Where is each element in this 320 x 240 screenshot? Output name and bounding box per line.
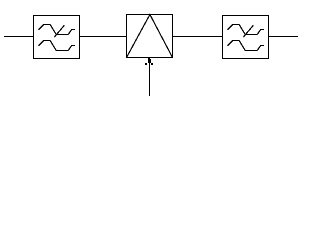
filter F2 lower sine bbox=[228, 41, 264, 51]
wire input lead bbox=[4, 36, 34, 38]
filter F1 box bbox=[34, 16, 80, 59]
filter F2 box bbox=[223, 16, 269, 59]
arrow control head body bbox=[148, 59, 151, 63]
arrow control shaft bbox=[149, 62, 151, 96]
amplifier U1 box bbox=[127, 15, 173, 58]
filter F2 strike-through bbox=[243, 25, 253, 37]
filter F1 lower sine bbox=[39, 41, 75, 51]
arrow control head left barb bbox=[145, 63, 147, 65]
filter F1 strike-through bbox=[54, 25, 64, 37]
arrow control head right barb bbox=[151, 63, 153, 65]
wire U1 to F2 bbox=[173, 36, 223, 38]
wire output lead bbox=[269, 36, 299, 38]
arrow control head tip bbox=[148, 58, 150, 59]
wire F1 to U1 bbox=[80, 36, 127, 38]
amplifier U1 triangle bbox=[127, 15, 173, 58]
filter F2 upper sine bbox=[228, 25, 264, 35]
filter F1 upper sine bbox=[39, 25, 75, 35]
